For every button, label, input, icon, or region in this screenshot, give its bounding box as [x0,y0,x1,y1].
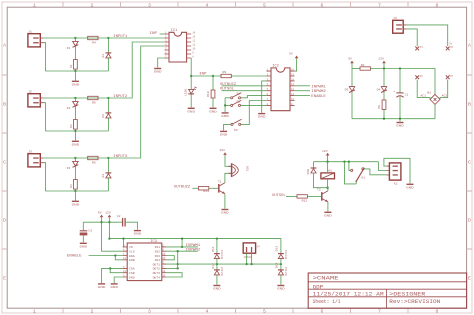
pad X7 [446,75,450,79]
diode D12 [214,270,220,275]
ground row C [72,201,80,207]
wire X7 to bridge AC2 [440,80,448,100]
wire VS to 12V [122,239,125,247]
wire 5V stem [351,63,353,68]
svg-text:OUTSOL: OUTSOL [220,88,234,92]
power 5V at IC2 [295,56,299,59]
wire GND stub row C [74,191,76,200]
svg-text:ENABLE: ENABLE [311,95,326,99]
net label OUTSOL wire [222,90,267,92]
svg-text:INPWM2: INPWM2 [311,90,326,94]
svg-text:15: 15 [162,257,166,260]
svg-text:R12: R12 [302,199,308,203]
zener Z1 [73,38,79,60]
ground LED1 [187,108,195,114]
ground S3 [220,131,228,137]
wire row B bottom rail [44,103,109,131]
IC3 right pin stubs [162,247,167,277]
power 12V at buzzer [223,152,227,155]
node row A diode junction [107,37,109,39]
wire GND stub row B [74,131,76,140]
svg-text:>DESIGNER: >DESIGNER [389,292,425,298]
svg-text:>CNAME: >CNAME [313,275,339,281]
svg-text:1N4148: 1N4148 [220,250,223,260]
svg-text:X6: X6 [420,75,424,78]
wire clamp top rail [109,239,281,254]
resistor R12 (series) [297,195,307,198]
wire S1 left [225,97,230,99]
node S2 gnd junction [224,104,226,106]
wire IC2 pin11 ENABLE [295,95,310,97]
wire coil bottom stem [327,179,329,188]
IC1 left pin stubs [164,34,169,58]
ground power rail [396,122,404,128]
svg-text:SG1: SG1 [245,166,249,172]
svg-text:INPWM2: INPWM2 [186,249,201,253]
wire CSB tie [110,268,122,272]
diode D10 [311,168,317,173]
wire C3 column [82,222,84,231]
svg-text:5: 5 [263,2,266,8]
svg-text:X7: X7 [450,75,454,78]
node row C zener junction [74,157,76,159]
wire relay top rail [314,161,379,163]
svg-text:R3: R3 [69,184,73,188]
wire T2 emitter to ground [327,202,329,212]
capacitor C1 (polarized) [396,93,403,97]
svg-text:5V: 5V [348,57,352,61]
ground IC2 pin3 [258,113,266,119]
wire IN3/IN4 tie [166,256,174,260]
node X3 pin1 junction [245,263,247,265]
wire row A bottom rail [44,43,109,71]
svg-text:5V: 5V [289,52,293,56]
transistor T1 [219,183,225,194]
wire 5V stem IC3 [101,217,103,222]
svg-text:ENB: ENB [129,258,135,262]
svg-text:1: 1 [33,2,36,8]
svg-text:11: 11 [291,93,295,96]
net label OUTBUZZ wire [222,85,267,87]
svg-text:B: B [3,102,6,108]
wire T1 emitter to ground [224,194,226,209]
IC2 body [271,68,290,111]
svg-text:GND: GND [129,275,135,279]
svg-text:15: 15 [291,73,295,76]
svg-text:13: 13 [291,83,295,86]
node relay 12V junction [326,161,328,163]
wire T2 collector to coil node [327,188,329,191]
ground T2 [324,212,332,218]
wire J4 pin2 to pad X4 [406,29,417,46]
ground R10 [209,108,217,114]
capacitor C3 (polarized) [80,231,88,236]
node C1 bottom junction [399,118,401,120]
svg-text:10: 10 [291,98,295,101]
svg-text:6: 6 [321,309,324,315]
wire T1 collector to buzzer [225,173,231,183]
svg-text:J2: J2 [28,90,32,94]
svg-text:LED1: LED1 [183,88,187,96]
connector J3 [28,154,44,167]
svg-text:R4: R4 [92,41,96,45]
svg-text:R8: R8 [377,105,381,109]
wire D12 to ground [216,275,218,284]
svg-text:12: 12 [123,270,127,273]
wire IN2 riser to mid rail [177,251,179,268]
diode D13 [278,254,284,259]
connector X2 [387,163,401,180]
wire row B top [44,42,165,98]
node D4 bottom junction [383,118,385,120]
svg-text:13: 13 [162,270,166,273]
node IN2 riser OUT2 junction [177,267,179,269]
ground IC3 [110,283,118,289]
wire C1 column bottom [399,96,401,118]
ground C3 [80,243,88,249]
svg-text:OUT4: OUT4 [153,275,161,279]
svg-text:D12: D12 [211,263,215,269]
svg-text:3: 3 [148,2,151,8]
switch S2 [231,100,242,106]
svg-text:2: 2 [91,2,94,8]
wire IN1 [166,246,198,248]
wire ground stub power [399,119,401,122]
wire D5 to bottom rail [351,92,353,119]
resistor R2 (series) [360,67,370,70]
wire 5V/12V rail [83,221,122,223]
node IN2 riser mid rail junction [177,263,179,265]
zener D4 [381,87,387,93]
resistor R4 (series) [88,36,98,39]
frame column ticks bottom [63,308,408,313]
resistor R2 (vertical) [74,120,78,130]
wire top rail left [352,68,360,70]
wire 12V stem IC3 [108,217,110,222]
wire X6 to bridge AC1 [417,80,430,100]
svg-text:C3: C3 [88,228,92,232]
diode D10 top wire [313,162,315,168]
wire bottom rail [352,118,435,120]
power 5V at IC3 [100,215,104,218]
svg-text:AC1: AC1 [420,93,426,97]
node row B rail junction [74,130,76,132]
svg-text:INPUT3: INPUT3 [113,155,127,159]
wire X3 pin2 stem [251,253,253,264]
svg-text:8: 8 [436,309,439,315]
svg-text:11: 11 [123,257,127,260]
diode D2 [106,98,112,131]
svg-text:D: D [3,218,6,224]
svg-text:GDP: GDP [313,284,324,290]
wire OUT1 mid rail [166,263,281,265]
svg-text:C: C [468,160,471,166]
svg-text:C: C [3,160,6,166]
wire IN1 riser to top rail [181,239,183,247]
svg-text:12V: 12V [322,149,328,153]
IC2 right pin stubs [290,71,295,105]
IC1 right pin stubs [187,34,192,58]
pad X6 [415,75,419,79]
wire bridge bottom [434,104,436,118]
wire contact common riser [349,162,351,171]
wire IN2 [166,250,198,252]
wire J4 pin1 to pad X5 [406,25,447,46]
svg-text:D: D [468,218,471,224]
wire CSA to ground [102,268,123,283]
wire IC1 pin1 stub [160,33,165,35]
net label OUTBUZZ wire [193,187,199,189]
node relay coil bottom junction [326,187,328,189]
svg-text:10: 10 [192,47,196,50]
node clamp mid rail col1 [216,263,218,265]
ground T1 [221,209,229,215]
wire zener-resistor column to rail B [74,129,76,131]
ground CSA [98,283,106,289]
ground C2 [134,230,142,236]
resistor R6 (series) [88,156,98,159]
svg-text:11/25/2017 12:12 AM: 11/25/2017 12:12 AM [313,292,384,298]
resistor R9 (series) [221,74,231,77]
wire row C bottom rail [44,163,109,191]
frame column ticks top [63,2,408,7]
svg-text:12: 12 [192,39,196,42]
node 12V junction [108,221,110,223]
resistor R5 (series) [88,96,98,99]
node LED junction [190,75,192,77]
ground clamp col2 [277,285,285,291]
svg-text:Sheet: 1/1: Sheet: 1/1 [313,299,341,305]
svg-text:X4: X4 [420,46,424,49]
svg-text:D3: D3 [101,174,105,178]
resistor R8 (vertical) [382,100,386,110]
svg-text:X5: X5 [450,46,454,49]
power 12V at relay [326,153,330,156]
svg-text:7: 7 [378,2,381,8]
node row B diode junction [107,97,109,99]
svg-text:ENABLE: ENABLE [67,255,82,259]
ground S1 S2 [221,112,229,118]
IC3 left pin stubs [123,247,128,277]
relay coil K1 [321,173,335,179]
diode D14 [278,270,284,275]
node row C diode junction [107,157,109,159]
node pivot riser junction [343,161,345,163]
node row A rail junction [74,70,76,72]
svg-text:R2: R2 [361,63,365,67]
wire IC1 pin7 to ground [158,58,165,68]
node ENA/ENB junction [114,254,116,256]
svg-text:4: 4 [206,309,209,315]
svg-text:3: 3 [148,309,151,315]
svg-text:X2: X2 [394,181,398,185]
wire ENA to label [89,255,123,257]
resistor R3 (vertical) [74,180,78,190]
svg-text:R5: R5 [92,101,96,105]
ground X2 [406,184,414,190]
svg-text:OUTSOL: OUTSOL [272,194,286,198]
svg-text:4: 4 [206,2,209,8]
svg-text:8: 8 [436,2,439,8]
IC3 pin names left [129,245,135,279]
svg-text:IC2: IC2 [272,65,278,69]
wire ground to X2 pin1 [384,158,410,183]
wire R8 to bottom rail [383,110,385,119]
wire top rail right [370,69,435,95]
svg-text:D4: D4 [377,87,381,91]
pad X5 [446,47,450,51]
wire ENB tie [115,256,122,260]
svg-text:13: 13 [192,35,196,38]
wire OUT3/OUT4 tie [166,273,182,277]
svg-text:INP: INP [150,32,158,36]
node row C rail junction [74,190,76,192]
svg-text:AK500: AK500 [244,256,252,259]
wire zener-resistor column to rail [74,69,76,71]
svg-text:C1: C1 [405,93,409,97]
node IN1 riser junction [181,246,183,248]
diode D11 [214,254,220,259]
wire R12 to T2 base [307,195,321,197]
LED1 [188,76,196,107]
IC3 body [127,243,162,281]
svg-text:D13: D13 [275,246,279,252]
svg-text:12: 12 [291,88,295,91]
wire GND stub row A [74,71,76,80]
wire C2 to ground [125,222,137,230]
zener D5 column wire top [351,69,353,87]
svg-text:D1: D1 [101,54,105,58]
IC2 left pin numbers [267,69,269,106]
svg-text:8: 8 [192,55,194,58]
svg-text:5V: 5V [98,211,102,215]
svg-text:Z1: Z1 [67,46,71,50]
svg-text:1N4148: 1N4148 [284,250,287,260]
svg-text:OUTBUZZ: OUTBUZZ [174,185,191,189]
buzzer SG1 [228,163,238,177]
wire S1 right to IC2 pin6 [241,96,267,98]
svg-text:12V: 12V [219,148,225,152]
op-amp IC1 body [169,32,187,62]
power 12V at IC3 [108,215,112,218]
svg-text:S2: S2 [236,99,240,103]
capacitor C2 [123,218,126,227]
svg-text:B: B [468,102,471,108]
svg-text:1N4148: 1N4148 [220,267,223,277]
wire 12V stem [383,63,385,68]
IC3 right pin numbers [162,244,166,277]
svg-text:INPUT1: INPUT1 [113,35,127,39]
switch S1 [231,93,242,99]
svg-text:1N4148: 1N4148 [284,267,287,277]
svg-text:D2: D2 [101,114,105,118]
relay contact K1 [351,168,365,182]
svg-text:Rev:>CREVISION: Rev:>CREVISION [389,299,440,305]
switch S3 [231,119,242,125]
svg-text:5: 5 [263,309,266,315]
wire pivot to rail [345,162,357,184]
diode D1 [106,38,112,71]
node VS riser junction [108,237,110,239]
svg-text:R10: R10 [206,91,210,97]
wire 12V to buzzer pin [225,155,231,166]
svg-text:Z3: Z3 [67,166,71,170]
wire IC2 pin12 INPWM2 [295,90,310,92]
wire S2 right to IC2 pin8 [241,104,267,106]
svg-text:D10: D10 [306,169,310,175]
IC1 left pin numbers [165,31,167,58]
wire 12V stem relay [327,156,329,162]
svg-text:R1: R1 [69,64,73,68]
zener Z3 [73,158,79,180]
svg-text:2: 2 [91,309,94,315]
wire row A top [44,37,165,39]
svg-text:12V: 12V [105,211,111,215]
connector J4 [393,20,407,33]
ground clamp col1 [213,285,221,291]
power 5V arrow [350,61,354,64]
svg-text:9: 9 [192,51,194,54]
svg-text:J1: J1 [28,30,32,34]
bridge rectifier B1 [430,94,440,104]
zener D5 [349,87,355,93]
transistor T2 [322,191,328,202]
wire IC2 pin3 to ground [262,81,267,113]
node 12V rail junction [383,67,385,69]
connector X3 [243,243,255,253]
svg-text:A: A [468,43,471,49]
node clamp mid rail col2 [280,263,282,265]
svg-text:K1: K1 [328,169,332,173]
svg-text:E: E [3,276,6,282]
wire VLS to 5V [102,222,123,251]
svg-text:D5: D5 [345,87,349,91]
svg-text:R6: R6 [92,161,96,165]
wire pivot stem [355,181,357,184]
wire D4 to R8 [383,92,385,100]
node row B zener junction [74,97,76,99]
power 12V arrow [382,61,386,64]
svg-text:14: 14 [162,274,166,277]
wire INP horizontal to IC2 pin2 [191,75,221,77]
wire X3 pin1 stem [246,253,248,264]
IC2 right pin numbers [291,69,295,106]
node C1 rail junction [399,67,401,69]
diode D3 [106,158,112,191]
resistor R11 (series) [198,187,208,190]
svg-text:1: 1 [33,309,36,315]
resistor R10 (vertical) [211,76,215,107]
svg-text:16: 16 [291,69,295,72]
svg-text:C2: C2 [117,214,121,218]
node R10 junction [212,75,214,77]
wire S3 right to IC2 pin7 [241,101,267,125]
frame row ticks right [467,75,472,249]
svg-text:INP: INP [199,73,207,77]
wire rail to X2 pin2 [378,162,386,171]
svg-text:B1: B1 [427,90,431,94]
wire D10 to collector node [314,173,328,187]
resistor R1 (vertical) [74,60,78,70]
svg-text:10: 10 [162,253,166,256]
IC2 left pin stubs [266,71,271,105]
svg-text:T1: T1 [218,179,222,183]
wire D14 to ground [280,275,282,284]
ground row A [72,81,80,87]
frame row ticks left [2,75,7,249]
svg-text:A: A [3,43,6,49]
net label OUTSOL wire [286,195,297,197]
